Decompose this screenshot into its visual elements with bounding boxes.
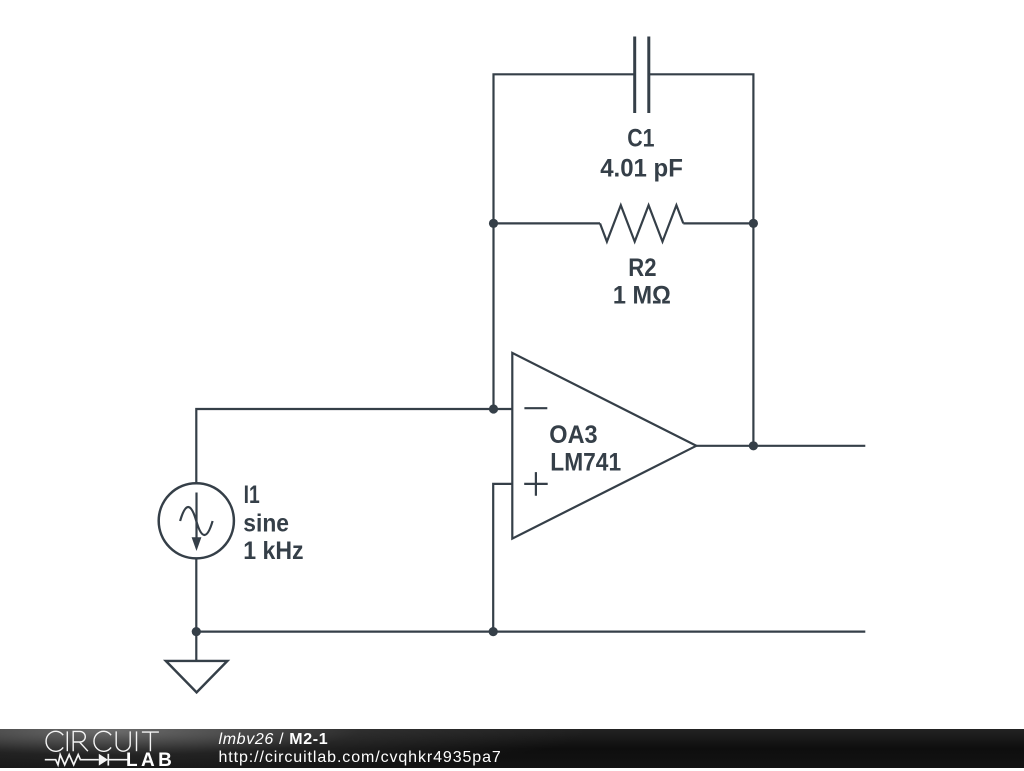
junction node minus input xyxy=(489,404,498,413)
ground xyxy=(166,632,228,693)
junction node R2 right xyxy=(749,219,758,228)
svg-text:OA3: OA3 xyxy=(549,421,597,449)
wire plus input xyxy=(493,484,512,632)
logo letter I xyxy=(136,731,138,751)
label LAB xyxy=(126,754,175,767)
junction node R2 left xyxy=(489,219,498,228)
label 4.01 pF xyxy=(600,155,683,183)
capacitor C1 xyxy=(635,37,649,114)
junction node ground mid xyxy=(489,627,498,636)
footer meta line 2 (URL) xyxy=(219,750,502,766)
label R2 xyxy=(628,254,656,282)
label sine xyxy=(243,509,289,537)
wire source bottom vertical xyxy=(195,558,197,631)
svg-text:C1: C1 xyxy=(627,125,654,153)
svg-text:R2: R2 xyxy=(628,254,656,282)
logo letter T xyxy=(142,732,159,751)
svg-text:4.01 pF: 4.01 pF xyxy=(600,155,683,183)
logo wire with resistor xyxy=(45,755,99,765)
logo letter C xyxy=(94,731,111,751)
wire ground rail xyxy=(196,630,865,632)
label 1 kHz xyxy=(243,537,303,565)
CircuitLab logo xyxy=(0,728,190,768)
svg-text:LM741: LM741 xyxy=(550,449,621,477)
logo diode xyxy=(99,754,108,766)
logo letter U xyxy=(116,731,130,751)
op-amp OA3 xyxy=(512,353,696,539)
label 1 MΩ xyxy=(613,281,671,309)
junction node output xyxy=(749,441,758,450)
wire top right segment + feedback right vertical xyxy=(649,74,754,446)
wire minus input + source top vertical xyxy=(196,409,512,483)
wire feedback left vertical + top left segment xyxy=(494,74,635,409)
logo letter R xyxy=(73,731,88,751)
label C1 xyxy=(627,125,654,153)
current source I1 xyxy=(159,483,234,558)
wire resistor row left xyxy=(494,222,601,224)
logo letter C xyxy=(46,731,63,751)
svg-text:1 kHz: 1 kHz xyxy=(243,537,303,565)
svg-text:I1: I1 xyxy=(244,481,260,509)
wire resistor row right xyxy=(683,222,753,224)
resistor R2 xyxy=(600,205,683,241)
logo letter I xyxy=(66,731,68,751)
label I1 xyxy=(244,481,260,509)
svg-text:1 MΩ: 1 MΩ xyxy=(613,281,671,309)
junction node ground left xyxy=(192,627,201,636)
footer meta line 1 xyxy=(219,732,329,748)
label LM741 xyxy=(550,449,621,477)
label OA3 xyxy=(549,421,597,449)
svg-text:sine: sine xyxy=(243,509,289,537)
footer bar xyxy=(0,729,1024,768)
wire output xyxy=(696,445,865,447)
